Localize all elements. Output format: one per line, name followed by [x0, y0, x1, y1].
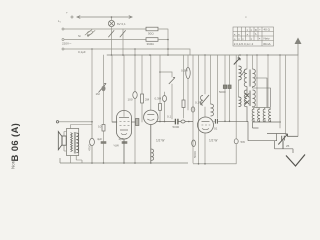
svg-text:4µF: 4µF — [119, 137, 124, 141]
wire drop x135 — [134, 49, 136, 163]
electrolytic cap x92 — [90, 138, 95, 145]
resistor x103 — [102, 125, 105, 132]
svg-text:×: × — [251, 37, 253, 41]
capacitor coupling dark — [175, 119, 178, 125]
potentiometer reaction — [201, 95, 210, 105]
svg-text:100: 100 — [128, 98, 133, 102]
svg-text:220V∼: 220V∼ — [62, 42, 72, 46]
wire line y49 — [64, 49, 190, 55]
transformer Tr IF — [242, 69, 271, 122]
node L1 terminal — [71, 16, 73, 18]
capacitor x225 — [223, 85, 226, 89]
svg-text:470Ω: 470Ω — [88, 144, 92, 151]
wire bottom bus left — [60, 162, 188, 164]
capacitor small x180 — [182, 100, 185, 108]
wire drop x268 — [267, 55, 269, 108]
wire drop x217 — [217, 55, 219, 119]
wire mains line 1 — [64, 28, 146, 30]
tube V2 VY2 — [144, 110, 193, 163]
trimmer arrow x238 — [234, 58, 240, 65]
wire antenna drop — [297, 55, 299, 136]
wire drop x164 — [164, 92, 166, 122]
wire drop x172 — [171, 72, 173, 119]
svg-text:4µF: 4µF — [97, 137, 102, 141]
wire drop x236 — [235, 55, 237, 164]
coil choke x150 — [151, 149, 154, 160]
wire drop x257 — [256, 55, 258, 108]
wire drop x280 — [279, 55, 281, 128]
svg-text:50Ω: 50Ω — [148, 32, 154, 36]
svg-text:40 Ω: 40 Ω — [264, 28, 271, 32]
resistor Rg — [186, 68, 190, 79]
svg-text:0,3M: 0,3M — [155, 97, 162, 101]
lamp La dial — [108, 20, 114, 26]
svg-text:×: × — [245, 15, 247, 19]
voltage table — [233, 27, 274, 46]
resistor R heat 1 — [146, 27, 158, 31]
bottom labels — [88, 69, 290, 159]
resistor x193 — [191, 107, 195, 112]
svg-text:B 06 (A): B 06 (A) — [10, 123, 21, 162]
wire drop x238c — [238, 55, 240, 97]
svg-text:×: × — [238, 37, 240, 41]
svg-text:×: × — [247, 32, 249, 36]
junction dots on bus — [111, 54, 113, 56]
transformer T2 — [244, 90, 247, 107]
svg-text:1/2 W: 1/2 W — [209, 138, 217, 142]
svg-text:10: 10 — [98, 125, 102, 129]
svg-text:390Ω: 390Ω — [147, 42, 155, 46]
node mains terminal a — [62, 28, 64, 30]
svg-text:30mA: 30mA — [263, 42, 271, 46]
svg-text:0,3M: 0,3M — [181, 69, 188, 73]
middle components — [99, 58, 249, 147]
wire drop x124 tube1 top — [123, 55, 125, 117]
resistor R heat 2 — [146, 38, 158, 42]
resistor oval x236 — [234, 139, 238, 144]
wire drop x142 — [141, 55, 143, 122]
tube V1 VCL11 — [112, 111, 132, 164]
capacitor el x103 — [101, 141, 107, 144]
svg-text:5000: 5000 — [173, 125, 180, 129]
speaker + output transformer — [56, 121, 92, 163]
ground chevron — [286, 155, 305, 167]
svg-text:Nora: Nora — [11, 159, 16, 169]
svg-text:Si: Si — [78, 34, 81, 38]
capacitor C el1 — [133, 92, 137, 99]
wire drop x103 — [103, 55, 105, 124]
antenna coil row — [248, 108, 293, 154]
wire drop x229 — [229, 55, 231, 121]
transformer frame — [67, 129, 79, 156]
wire tube2 anode right — [157, 121, 194, 123]
resistor series oval — [181, 120, 185, 123]
capacitor tube1 right — [136, 119, 139, 126]
svg-text:2M: 2M — [145, 98, 150, 102]
value labels top section — [58, 11, 247, 54]
coil x238 low — [239, 97, 242, 107]
wire drop x198 — [198, 55, 200, 163]
trimmer x172 — [169, 78, 175, 85]
trimmer capacitor right — [278, 134, 298, 149]
fuse Si — [85, 30, 95, 37]
wire drop x180 — [183, 55, 185, 118]
resistor R anode — [163, 96, 167, 102]
svg-text:×: × — [234, 32, 236, 36]
wire ladder — [253, 122, 259, 128]
title Nora B06(A) rotated left margin — [10, 123, 21, 169]
svg-text:5000: 5000 — [219, 90, 226, 94]
wire bottom bus right — [193, 163, 236, 165]
capacitor el x124 — [122, 141, 128, 144]
switch S1 contact 1 — [111, 29, 113, 55]
resistor Rk1 — [141, 94, 144, 103]
potentiometer vol — [99, 84, 107, 93]
svg-text:+: + — [66, 11, 68, 15]
wire drop x205 tube3 — [204, 55, 206, 164]
svg-text:2·0,1•5·0,1•×·2: 2·0,1•5·0,1•×·2 — [234, 42, 254, 46]
transformer windings — [71, 133, 73, 152]
svg-text:500Ω: 500Ω — [193, 151, 197, 158]
speaker cone — [62, 136, 66, 145]
wire drop x160 — [159, 55, 161, 122]
node mains terminal c — [62, 48, 64, 50]
wire drop x193 — [192, 55, 194, 163]
paper background — [0, 0, 320, 192]
svg-text:×: × — [251, 28, 253, 32]
svg-text:L₁: L₁ — [58, 19, 61, 23]
wire lamp leads — [111, 17, 113, 29]
wire drop x247 — [246, 55, 248, 69]
wire drop x188 — [187, 55, 189, 110]
svg-text:×: × — [259, 37, 261, 41]
coil x238 top — [239, 66, 242, 80]
wire drop x92 — [91, 49, 93, 122]
svg-text:Netz: Netz — [264, 37, 271, 41]
resistor x193 low — [192, 140, 196, 147]
wire drop x112 — [112, 55, 117, 122]
svg-text:×: × — [238, 32, 240, 36]
wire drop x150 tube2 top — [150, 55, 152, 110]
svg-text:½W: ½W — [114, 144, 120, 148]
antenna arrow right — [297, 44, 299, 55]
wire mains line 2 — [64, 39, 146, 41]
svg-text:0,1: 0,1 — [167, 115, 172, 119]
svg-text:5W: 5W — [241, 140, 246, 144]
node mains terminal b — [62, 39, 64, 41]
svg-text:×: × — [247, 28, 249, 32]
tube V3 VCL11 — [198, 117, 214, 133]
svg-text:0,1µF: 0,1µF — [78, 50, 86, 54]
wire drop x225 — [224, 55, 226, 121]
svg-text:6V 0,1: 6V 0,1 — [117, 22, 126, 26]
wire tick x285 — [285, 55, 287, 134]
svg-text:25: 25 — [286, 144, 290, 148]
svg-text:1M: 1M — [96, 92, 101, 96]
capacitor x229 — [228, 85, 231, 89]
capacitor plates x217 — [215, 119, 217, 124]
wire arrowheads — [77, 16, 132, 19]
svg-text:1/2 W: 1/2 W — [156, 138, 164, 142]
bottom rail — [60, 122, 236, 165]
wire drop x210 — [210, 55, 212, 104]
wire drop x252 — [252, 55, 254, 69]
wire dimension line top — [77, 16, 132, 18]
svg-text:×: × — [242, 37, 244, 41]
coil x210 — [211, 104, 214, 116]
wire main bus y55 — [107, 54, 298, 56]
svg-text:·01: ·01 — [213, 127, 218, 131]
resistor R screen — [159, 104, 162, 111]
wire coil bottoms — [253, 121, 281, 123]
svg-text:0,1M: 0,1M — [195, 101, 202, 105]
switch S1 contact 2 — [122, 29, 124, 55]
